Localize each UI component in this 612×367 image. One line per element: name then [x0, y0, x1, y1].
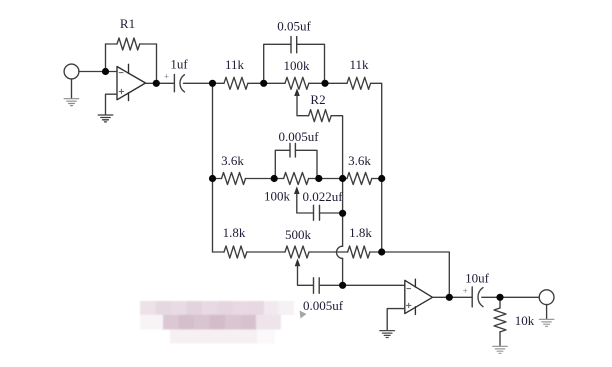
wire 0.005uf mid left leg [275, 150, 290, 178]
capacitor 1uf [173, 75, 175, 92]
svg-text:10uf: 10uf [465, 271, 490, 286]
op-amp U1 [117, 67, 146, 100]
capacitor 0.005uf bottom [313, 278, 315, 294]
wire feedback top right [140, 43, 157, 45]
capacitor 10uf [471, 287, 473, 307]
node U2 output [446, 294, 453, 301]
node left bus top [209, 80, 216, 87]
svg-text:1.8k: 1.8k [349, 225, 372, 240]
wire hop over bottom row [337, 246, 343, 258]
capacitor 0.05uf [290, 37, 292, 53]
capacitor 0.022uf [313, 205, 315, 220]
svg-text:10k: 10k [515, 313, 535, 328]
node 10k junction [496, 294, 503, 301]
capacitor 0.005uf mid [289, 143, 291, 157]
wire 10k bottom [499, 332, 501, 346]
svg-text:+: + [164, 72, 169, 82]
wire feedback down [156, 44, 158, 83]
wire 10uf to node [482, 296, 539, 298]
node input [102, 68, 109, 75]
wiper arrow mid pot [294, 186, 300, 194]
svg-text:R2: R2 [310, 92, 325, 107]
node 0.005uf bottom [339, 282, 346, 289]
wire U1 output [146, 82, 175, 84]
wire U2 plus input [387, 309, 405, 331]
cursor artifact [300, 311, 307, 319]
svg-text:1.8k: 1.8k [223, 225, 246, 240]
wire 0.05uf left leg [264, 44, 291, 83]
wire pot to node [309, 82, 325, 84]
node 3.6k-100k mid [271, 175, 278, 182]
wire top row start [213, 82, 225, 84]
potentiometer 100k mid [284, 173, 309, 185]
ground output [539, 319, 554, 326]
wire left bus [212, 83, 214, 252]
input terminal [64, 64, 79, 79]
wiper arrow 500k pot [295, 259, 301, 267]
wire vertical lower segment [342, 258, 344, 285]
wire 0.005uf mid right leg [295, 150, 317, 178]
potentiometer 100k top [285, 77, 309, 89]
node 11k-100k top [260, 80, 267, 87]
wire pot to 3.6k right [309, 178, 347, 180]
watermark blur [140, 301, 294, 344]
svg-text:100k: 100k [264, 189, 291, 204]
node 100k right mid [315, 175, 322, 182]
output terminal [539, 290, 554, 305]
svg-text:500k: 500k [285, 227, 312, 242]
resistor 1.8k left [224, 246, 247, 258]
wire input stem [71, 79, 73, 98]
wire pot to 1.8k right [309, 251, 348, 253]
wire 3.6k to right bus [372, 178, 382, 180]
wire 3.6k to pot [246, 178, 284, 180]
wire bottom-left corner [213, 251, 225, 253]
wire U2 output [433, 296, 473, 298]
wire input to op-amp [79, 71, 117, 73]
wire right bus lower [381, 179, 383, 253]
svg-text:3.6k: 3.6k [348, 153, 371, 168]
wire top right corner [371, 83, 382, 178]
svg-text:0.022uf: 0.022uf [302, 189, 343, 204]
wire 0.005uf to node [319, 284, 342, 286]
resistor 11k left [224, 77, 248, 89]
wire output stem [546, 305, 548, 319]
wire feedback top left [106, 43, 118, 45]
resistor 3.6k right [347, 173, 372, 185]
node right bus bottom [378, 248, 385, 255]
resistor 11k right [347, 77, 371, 89]
svg-text:3.6k: 3.6k [221, 153, 244, 168]
wire 11k to node [248, 82, 264, 84]
resistor 3.6k left [222, 173, 246, 185]
wire 1.8k to pot [247, 251, 285, 253]
wire R2 to vertical [331, 116, 342, 179]
node R2 vertical mid [339, 175, 346, 182]
svg-text:0.005uf: 0.005uf [303, 298, 344, 313]
svg-text:1uf: 1uf [170, 57, 188, 72]
node U1 output [153, 80, 160, 87]
wire 0.05uf right leg [297, 44, 325, 83]
wire bottom row to feedback corner [382, 252, 450, 297]
wire mid row start [213, 178, 222, 180]
wire 10k top [499, 297, 501, 308]
node 100k-11k top [321, 80, 328, 87]
ground 10k [493, 346, 508, 353]
ground U2 [380, 331, 395, 338]
node 0.022uf [339, 210, 346, 217]
svg-text:11k: 11k [225, 57, 245, 72]
wire wiper to 0.022uf [297, 193, 314, 213]
wire node to 11k right [325, 82, 347, 84]
wire vertical mid segment [342, 179, 344, 247]
resistor 10k [494, 308, 506, 332]
wire feedback up [105, 44, 107, 72]
svg-text:0.005uf: 0.005uf [278, 129, 319, 144]
svg-text:+: + [463, 286, 468, 296]
svg-text:0.05uf: 0.05uf [277, 19, 311, 34]
wire 1uf to bus [184, 82, 213, 84]
wire 1.8k to right bus node [370, 251, 382, 253]
wire wiper to R2 [297, 95, 309, 116]
resistor 1.8k right [348, 246, 370, 258]
wire U1 plus input [106, 94, 118, 114]
wire 0.022uf to vertical [320, 212, 343, 214]
ground input [64, 99, 79, 106]
op-amp U2 [405, 280, 433, 313]
wiper arrow top pot [294, 88, 300, 96]
wire node to U2 minus input [343, 284, 405, 286]
potentiometer 500k [285, 246, 309, 258]
svg-text:100k: 100k [284, 58, 311, 73]
resistor R1 [117, 38, 140, 50]
ground U1 [98, 115, 113, 122]
node right bus mid [378, 175, 385, 182]
svg-text:11k: 11k [349, 57, 369, 72]
node left bus mid [209, 175, 216, 182]
resistor R2 [309, 110, 332, 122]
wire node to pot [264, 82, 285, 84]
wire wiper to 0.005uf bottom [298, 265, 314, 285]
svg-text:R1: R1 [120, 16, 135, 31]
